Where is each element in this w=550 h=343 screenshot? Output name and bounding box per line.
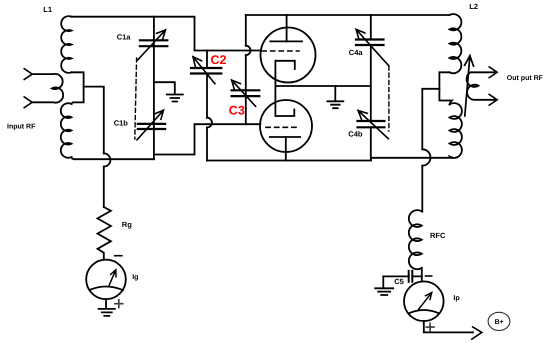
svg-text:C1b: C1b (114, 119, 129, 128)
svg-text:Ip: Ip (453, 295, 459, 302)
svg-text:C1a: C1a (117, 32, 132, 41)
svg-text:C3: C3 (229, 103, 245, 117)
svg-text:Ig: Ig (132, 274, 138, 281)
svg-text:C5: C5 (394, 277, 404, 286)
svg-text:L2: L2 (469, 2, 478, 11)
svg-text:B+: B+ (495, 319, 504, 326)
svg-text:Out put RF: Out put RF (507, 75, 544, 82)
svg-text:Rg: Rg (122, 220, 132, 229)
svg-text:C2: C2 (211, 53, 227, 67)
svg-text:Input RF: Input RF (7, 124, 36, 131)
svg-text:C4b: C4b (348, 130, 363, 139)
svg-text:L1: L1 (43, 5, 52, 14)
svg-text:RFC: RFC (430, 231, 446, 240)
svg-text:C4a: C4a (349, 48, 364, 57)
